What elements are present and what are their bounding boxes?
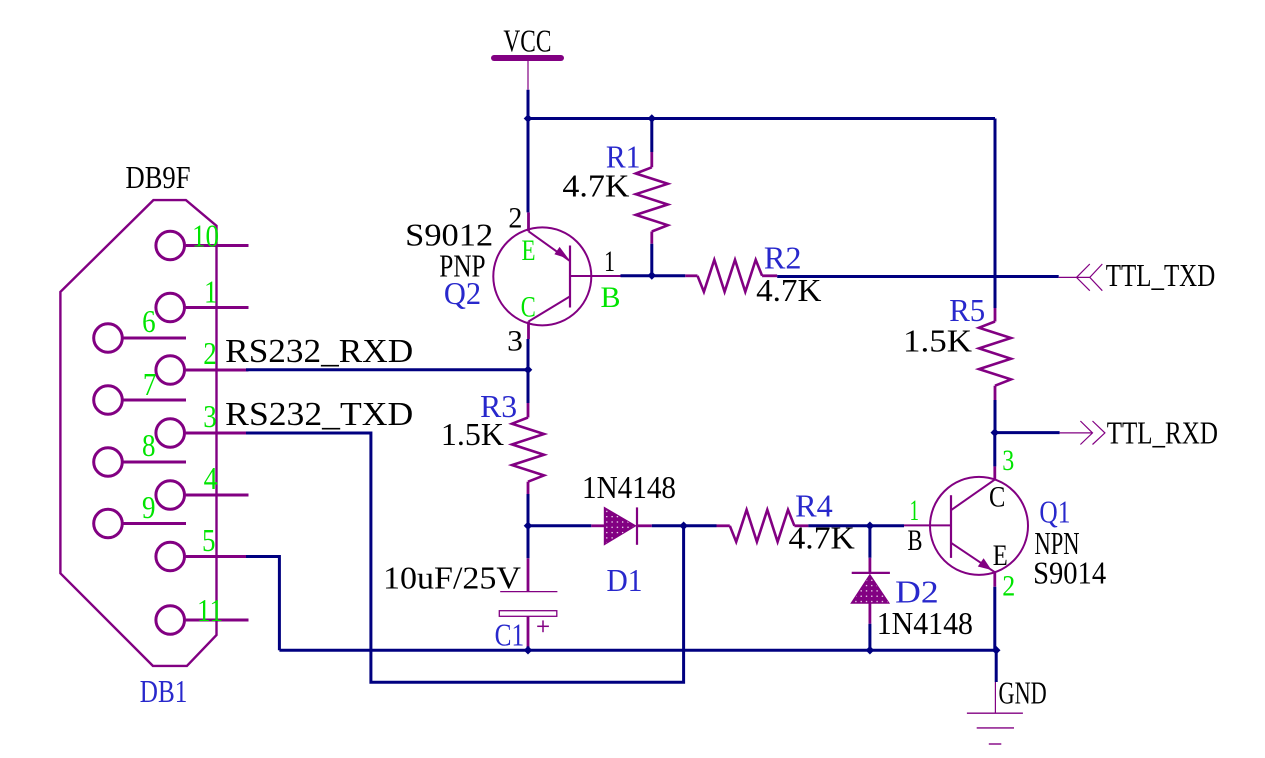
svg-text:1: 1 [910, 494, 920, 527]
junction at D1 cathode / TXD riser [679, 522, 688, 531]
resistor R2 [685, 260, 777, 292]
pin number 1 of Q1 [910, 494, 920, 527]
wire R3 node to D1 [528, 524, 591, 527]
svg-text:B: B [601, 281, 621, 314]
svg-text:3: 3 [507, 324, 523, 357]
pin number 3 of Q2 [507, 324, 523, 357]
connector pin 9 [94, 489, 186, 538]
svg-text:1N4148: 1N4148 [877, 605, 973, 641]
wire ground rail [279, 649, 996, 652]
junction at D2 anode / base wire [866, 522, 875, 531]
wire VCC stem to top rail and down to Q2 emitter [527, 90, 530, 213]
svg-text:7: 7 [143, 366, 157, 402]
svg-text:C1: C1 [495, 617, 524, 653]
part number 1N4148 of D2 [877, 605, 973, 641]
wire Q1 emitter to ground rail [993, 587, 996, 652]
svg-text:4.7K: 4.7K [562, 167, 629, 203]
wire RS232_RXD net [246, 368, 528, 371]
port TTL_TXD [1059, 257, 1216, 293]
wire R2 to TTL_TXD port [777, 275, 1058, 278]
svg-text:2: 2 [508, 202, 522, 235]
svg-text:RS232_RXD: RS232_RXD [225, 333, 413, 370]
part number S9014 of Q1 [1033, 554, 1106, 590]
label DB9F [126, 159, 191, 195]
designator D1 [607, 562, 643, 598]
svg-text:GND: GND [999, 675, 1047, 711]
svg-text:1: 1 [204, 274, 218, 310]
designator R5 [949, 292, 985, 328]
wire RS232_TXD net routing [246, 433, 684, 682]
connector pin 11 [156, 592, 249, 634]
junction at R1 bottom / base wire [648, 271, 657, 280]
svg-text:10: 10 [192, 218, 219, 254]
svg-text:E: E [993, 539, 1008, 572]
transistor Q2 [493, 212, 620, 339]
diode D2 [851, 526, 890, 650]
pin name C of Q1 [989, 480, 1005, 513]
svg-text:R2: R2 [764, 240, 802, 276]
svg-text:DB9F: DB9F [126, 159, 191, 195]
value 4.7K of R2 [756, 272, 821, 308]
type NPN of Q1 [1035, 525, 1080, 561]
net label RS232_RXD [225, 333, 413, 370]
power symbol VCC [494, 22, 561, 89]
connector DB1 DB9F shell outline [60, 200, 216, 666]
junction at RXD / Q2 collector [524, 366, 533, 375]
svg-text:TTL_TXD: TTL_TXD [1106, 257, 1215, 293]
pin number 2 of Q1 [1002, 569, 1015, 602]
svg-text:VCC: VCC [503, 22, 551, 58]
svg-text:4: 4 [204, 460, 218, 496]
connector pin 7 [94, 366, 186, 414]
net label RS232_TXD [225, 396, 413, 433]
diode D1 [591, 507, 652, 544]
junction at D2 cathode / rail [866, 646, 875, 655]
value 4.7K of R4 [789, 520, 855, 556]
wire Q1 collector to TTL_RXD node [993, 433, 996, 467]
designator R2 [764, 240, 802, 276]
pin name C of Q2 [521, 291, 536, 324]
wire rail to ground symbol [995, 650, 998, 682]
svg-text:2: 2 [1002, 569, 1015, 602]
svg-text:5: 5 [202, 522, 216, 558]
value 4.7K of R1 [562, 167, 629, 203]
connector pin 1 [156, 274, 249, 322]
capacitor C1 [499, 558, 557, 650]
svg-text:TTL_RXD: TTL_RXD [1107, 414, 1218, 450]
svg-text:S9014: S9014 [1033, 554, 1106, 590]
connector pin 2 [156, 335, 249, 384]
svg-text:9: 9 [142, 489, 156, 525]
wire Q2 collector down to R3 [527, 339, 530, 403]
connector pin 10 [156, 218, 249, 260]
wire R4 to Q1 base [808, 524, 904, 527]
type PNP of Q2 [439, 247, 485, 283]
connector pin 5 [156, 522, 249, 571]
resistor R1 [636, 119, 668, 276]
pin number 2 of Q2 [508, 202, 522, 235]
designator Q1 [1039, 494, 1070, 530]
wire TTL_RXD node to port [995, 431, 1060, 434]
designator D2 [895, 574, 939, 610]
svg-text:DB1: DB1 [140, 673, 188, 709]
part number S9012 of Q2 [405, 217, 493, 253]
svg-text:RS232_TXD: RS232_TXD [225, 396, 413, 433]
svg-text:E: E [522, 234, 536, 267]
svg-text:11: 11 [197, 592, 223, 628]
designator R3 [480, 388, 517, 424]
pin number 1 of Q2 [604, 245, 615, 278]
wire right vertical from rail to TTL_TXD line [994, 119, 997, 279]
svg-text:C: C [521, 291, 536, 324]
junction at R3 bottom / D1 / C1 [524, 522, 533, 531]
junction at C1 bottom / rail [524, 646, 533, 655]
svg-text:Q2: Q2 [444, 275, 481, 311]
value 10uF/25V of C1 [383, 559, 521, 595]
svg-text:1.5K: 1.5K [903, 323, 972, 359]
port TTL_RXD [1060, 414, 1218, 450]
svg-text:6: 6 [142, 303, 156, 339]
part number 1N4148 of D1 [582, 469, 676, 505]
svg-text:1N4148: 1N4148 [582, 469, 676, 505]
wire top rail [527, 117, 996, 120]
resistor R3 [512, 403, 544, 558]
svg-text:D1: D1 [607, 562, 643, 598]
svg-text:R4: R4 [795, 488, 833, 524]
ground GND [967, 675, 1047, 745]
svg-text:1: 1 [604, 245, 615, 278]
wire pin 5 to ground rail [246, 557, 279, 651]
connector pin 4 [156, 460, 249, 509]
svg-text:B: B [908, 524, 923, 557]
pin name E of Q2 [522, 234, 536, 267]
pin name B of Q2 [601, 281, 621, 314]
designator R1 [606, 139, 641, 175]
value 1.5K of R5 [903, 323, 972, 359]
connector pin 8 [94, 427, 186, 476]
junction at VCC / top rail [524, 114, 533, 123]
resistor R5 [979, 277, 1011, 433]
svg-text:8: 8 [142, 427, 156, 463]
svg-text:3: 3 [203, 398, 217, 434]
pin number 3 of Q1 [1002, 444, 1014, 477]
pin name B of Q1 [908, 524, 923, 557]
connector pin 3 [156, 398, 249, 447]
svg-text:2: 2 [203, 335, 217, 371]
wire D1 to R4 [652, 524, 717, 527]
designator R4 [795, 488, 833, 524]
svg-text:1.5K: 1.5K [441, 416, 504, 452]
resistor R4 [717, 510, 809, 542]
connector pin 6 [94, 303, 186, 352]
designator C1 [495, 617, 524, 653]
svg-text:C: C [989, 480, 1005, 513]
transistor Q1 [904, 466, 1028, 586]
pin name E of Q1 [993, 539, 1008, 572]
wire Q2 base to R2 [621, 274, 686, 277]
junction at TTL_RXD node [991, 428, 1000, 437]
junction at GND / rail [992, 646, 1001, 655]
junction at R1 top [648, 114, 657, 123]
svg-text:3: 3 [1002, 444, 1014, 477]
value 1.5K of R3 [441, 416, 504, 452]
designator DB1 [140, 673, 188, 709]
designator Q2 [444, 275, 481, 311]
svg-text:10uF/25V: 10uF/25V [383, 559, 521, 595]
